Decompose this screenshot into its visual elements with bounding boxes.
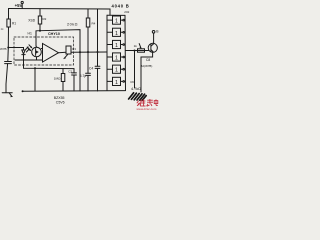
op-amp U1 <box>43 44 59 63</box>
transistor Q1 <box>148 33 157 52</box>
svg-text:C5V6: C5V6 <box>56 100 65 104</box>
capacitor C5 4.7u <box>80 52 91 91</box>
inverter stage 1 <box>107 16 125 25</box>
resistor R5 1M <box>54 69 65 92</box>
capacitor C1 <box>5 62 12 64</box>
wire divider tap <box>134 51 136 89</box>
resistor R6 1k <box>134 44 145 53</box>
wire left rail bottom <box>6 64 8 93</box>
wire LED top <box>8 48 23 51</box>
svg-text:www.dzsc.com: www.dzsc.com <box>137 107 157 110</box>
wire mid vertical to rail <box>79 52 81 91</box>
IC 4040 divider chain frame <box>107 15 126 90</box>
svg-text:1: 1 <box>115 80 118 86</box>
svg-text:4.7μ: 4.7μ <box>80 74 87 78</box>
svg-text:R4: R4 <box>92 22 96 26</box>
capacitor C4 <box>89 9 100 91</box>
svg-text:W7B: W7B <box>0 47 7 51</box>
inverter stage 2 <box>107 28 125 37</box>
wire emitter down <box>141 52 153 92</box>
svg-text:XSD: XSD <box>28 18 36 22</box>
svg-text:C2: C2 <box>68 70 72 74</box>
svg-text:20kΩ: 20kΩ <box>67 22 78 26</box>
svg-text:202: 202 <box>124 10 129 14</box>
inverter stage 4 <box>107 53 125 62</box>
svg-text:1: 1 <box>115 56 118 62</box>
svg-text:8A(W7B): 8A(W7B) <box>141 64 153 68</box>
wire base row <box>126 50 149 52</box>
wire bias node row <box>36 30 80 53</box>
inverter stage 5 <box>107 65 125 74</box>
wire left rail upper <box>8 9 10 20</box>
phototransistor PH1 <box>28 45 42 60</box>
svg-text:1: 1 <box>115 31 118 37</box>
wire to rail <box>34 68 36 91</box>
LED D1 <box>22 46 30 60</box>
+5V supply terminal <box>21 1 23 8</box>
resistor R2 XSD <box>28 9 46 31</box>
svg-text:R3: R3 <box>72 47 76 51</box>
terminal B <box>152 30 159 34</box>
wire top rail <box>9 9 111 16</box>
resistor R1 <box>7 19 16 27</box>
wire op-amp output <box>59 51 67 53</box>
wire photocell bottom row <box>15 59 43 61</box>
svg-text:1k: 1k <box>134 44 138 48</box>
watermark weiku chars <box>137 99 158 111</box>
svg-text:1: 1 <box>115 68 118 74</box>
node A junction <box>7 46 9 48</box>
resistor R4 20k <box>67 9 96 52</box>
svg-text:C4: C4 <box>89 66 93 70</box>
wire left rail middle <box>7 27 9 47</box>
dashed box CHY10 module <box>14 37 74 65</box>
svg-text:4040 B: 4040 B <box>112 4 130 9</box>
wire module bottom out <box>24 60 75 69</box>
potentiometer hatch RP1 <box>129 93 147 100</box>
wire output to chain <box>71 51 107 53</box>
svg-text:+5V: +5V <box>15 3 23 8</box>
svg-text:4.7kΩ: 4.7kΩ <box>131 87 141 91</box>
svg-text:1: 1 <box>115 19 118 25</box>
inverter stage 3 <box>107 40 125 49</box>
paper background <box>0 0 160 110</box>
svg-text:R2: R2 <box>43 17 47 21</box>
capacitor C2 <box>68 69 76 91</box>
svg-text:BZX55: BZX55 <box>54 96 65 100</box>
svg-text:H1: H1 <box>28 32 32 36</box>
svg-text:C6: C6 <box>130 80 134 84</box>
wire left rail lower <box>7 48 10 62</box>
svg-text:CHY10: CHY10 <box>48 32 60 36</box>
wire bottom rail <box>22 90 125 93</box>
svg-text:C8: C8 <box>146 58 150 62</box>
svg-text:R1: R1 <box>12 22 16 26</box>
inverter stage 6 <box>107 77 125 86</box>
potentiometer R3 <box>64 46 76 59</box>
ground <box>2 93 13 97</box>
svg-text:1MΩ: 1MΩ <box>54 76 61 80</box>
svg-text:1: 1 <box>115 43 118 49</box>
